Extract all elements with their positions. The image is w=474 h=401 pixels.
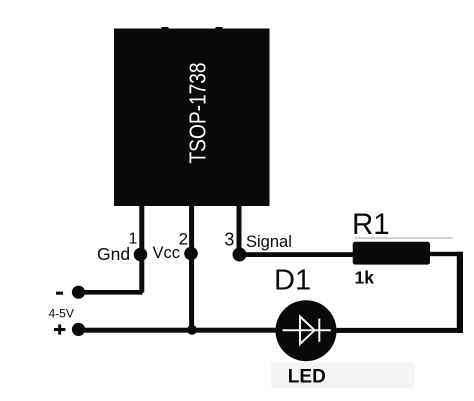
svg-text:2: 2	[179, 230, 188, 249]
svg-text:TSOP-1738: TSOP-1738	[185, 63, 211, 164]
svg-text:R1: R1	[352, 208, 390, 241]
svg-text:4-5V: 4-5V	[49, 307, 74, 321]
svg-text:1: 1	[129, 231, 138, 248]
svg-text:LED: LED	[288, 367, 326, 388]
svg-text:D1: D1	[274, 265, 311, 297]
svg-text:Vcc: Vcc	[153, 244, 181, 262]
svg-text:Gnd: Gnd	[97, 244, 130, 264]
svg-text:1k: 1k	[355, 268, 375, 288]
svg-text:Signal: Signal	[246, 233, 292, 251]
svg-text:3: 3	[224, 229, 234, 249]
